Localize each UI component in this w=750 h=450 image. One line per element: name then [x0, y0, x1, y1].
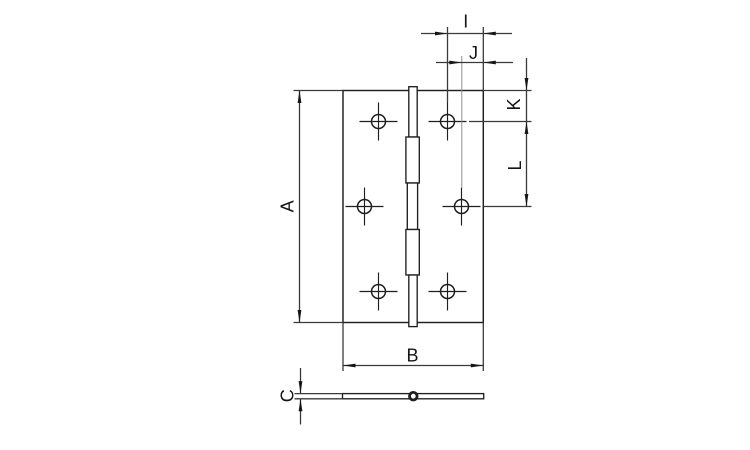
dimension C line with outside arrows [300, 368, 302, 425]
side view: pin barrel circle [410, 392, 418, 400]
svg-text:L: L [505, 160, 525, 170]
dimension B line with arrows [343, 365, 483, 367]
pin knuckle segment 1 (top, narrow) [409, 87, 417, 137]
dimension C extension lines [295, 394, 343, 399]
pin knuckle segment 4 (wide) [406, 230, 419, 276]
dimension K/L shared line with arrows [526, 58, 528, 207]
svg-text:C: C [278, 389, 298, 402]
screw hole H5 bottom-left [360, 273, 398, 311]
svg-text:K: K [504, 98, 524, 110]
dimension B extension lines [343, 323, 483, 372]
dimension I line with outside arrows [421, 33, 512, 35]
dimension K/L extension lines [469, 91, 532, 207]
pin knuckle segment 2 (wide) [406, 137, 419, 183]
screw hole H6 bottom-right [429, 273, 467, 311]
dimension A line with arrows [299, 91, 301, 323]
screw hole H4 middle-right [443, 188, 481, 226]
screw hole H3 middle-left [346, 188, 384, 226]
dimension J line with arrows [436, 62, 513, 64]
dimension I extension lines [448, 27, 484, 103]
hinge plate outline (front view) [343, 91, 483, 323]
svg-text:I: I [463, 12, 468, 32]
dimension A extension lines [294, 91, 344, 323]
screw hole H1 top-left [360, 103, 398, 141]
dimension J extension line (middle hole column) [461, 56, 463, 188]
svg-text:J: J [469, 43, 478, 63]
svg-text:B: B [406, 345, 418, 365]
svg-text:A: A [278, 200, 298, 212]
pin knuckle segment 5 (bottom, narrow) [409, 275, 417, 327]
side view: hinge leaf bar [343, 394, 484, 399]
screw hole H2 top-right [429, 103, 467, 141]
pin knuckle segment 3 (middle) [407, 183, 417, 230]
